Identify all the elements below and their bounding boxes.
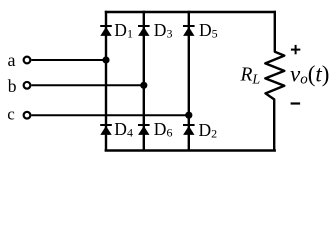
svg-text:a: a xyxy=(8,50,16,70)
svg-text:b: b xyxy=(8,76,17,96)
svg-text:vo(t): vo(t) xyxy=(290,62,329,88)
svg-text:c: c xyxy=(7,105,15,124)
